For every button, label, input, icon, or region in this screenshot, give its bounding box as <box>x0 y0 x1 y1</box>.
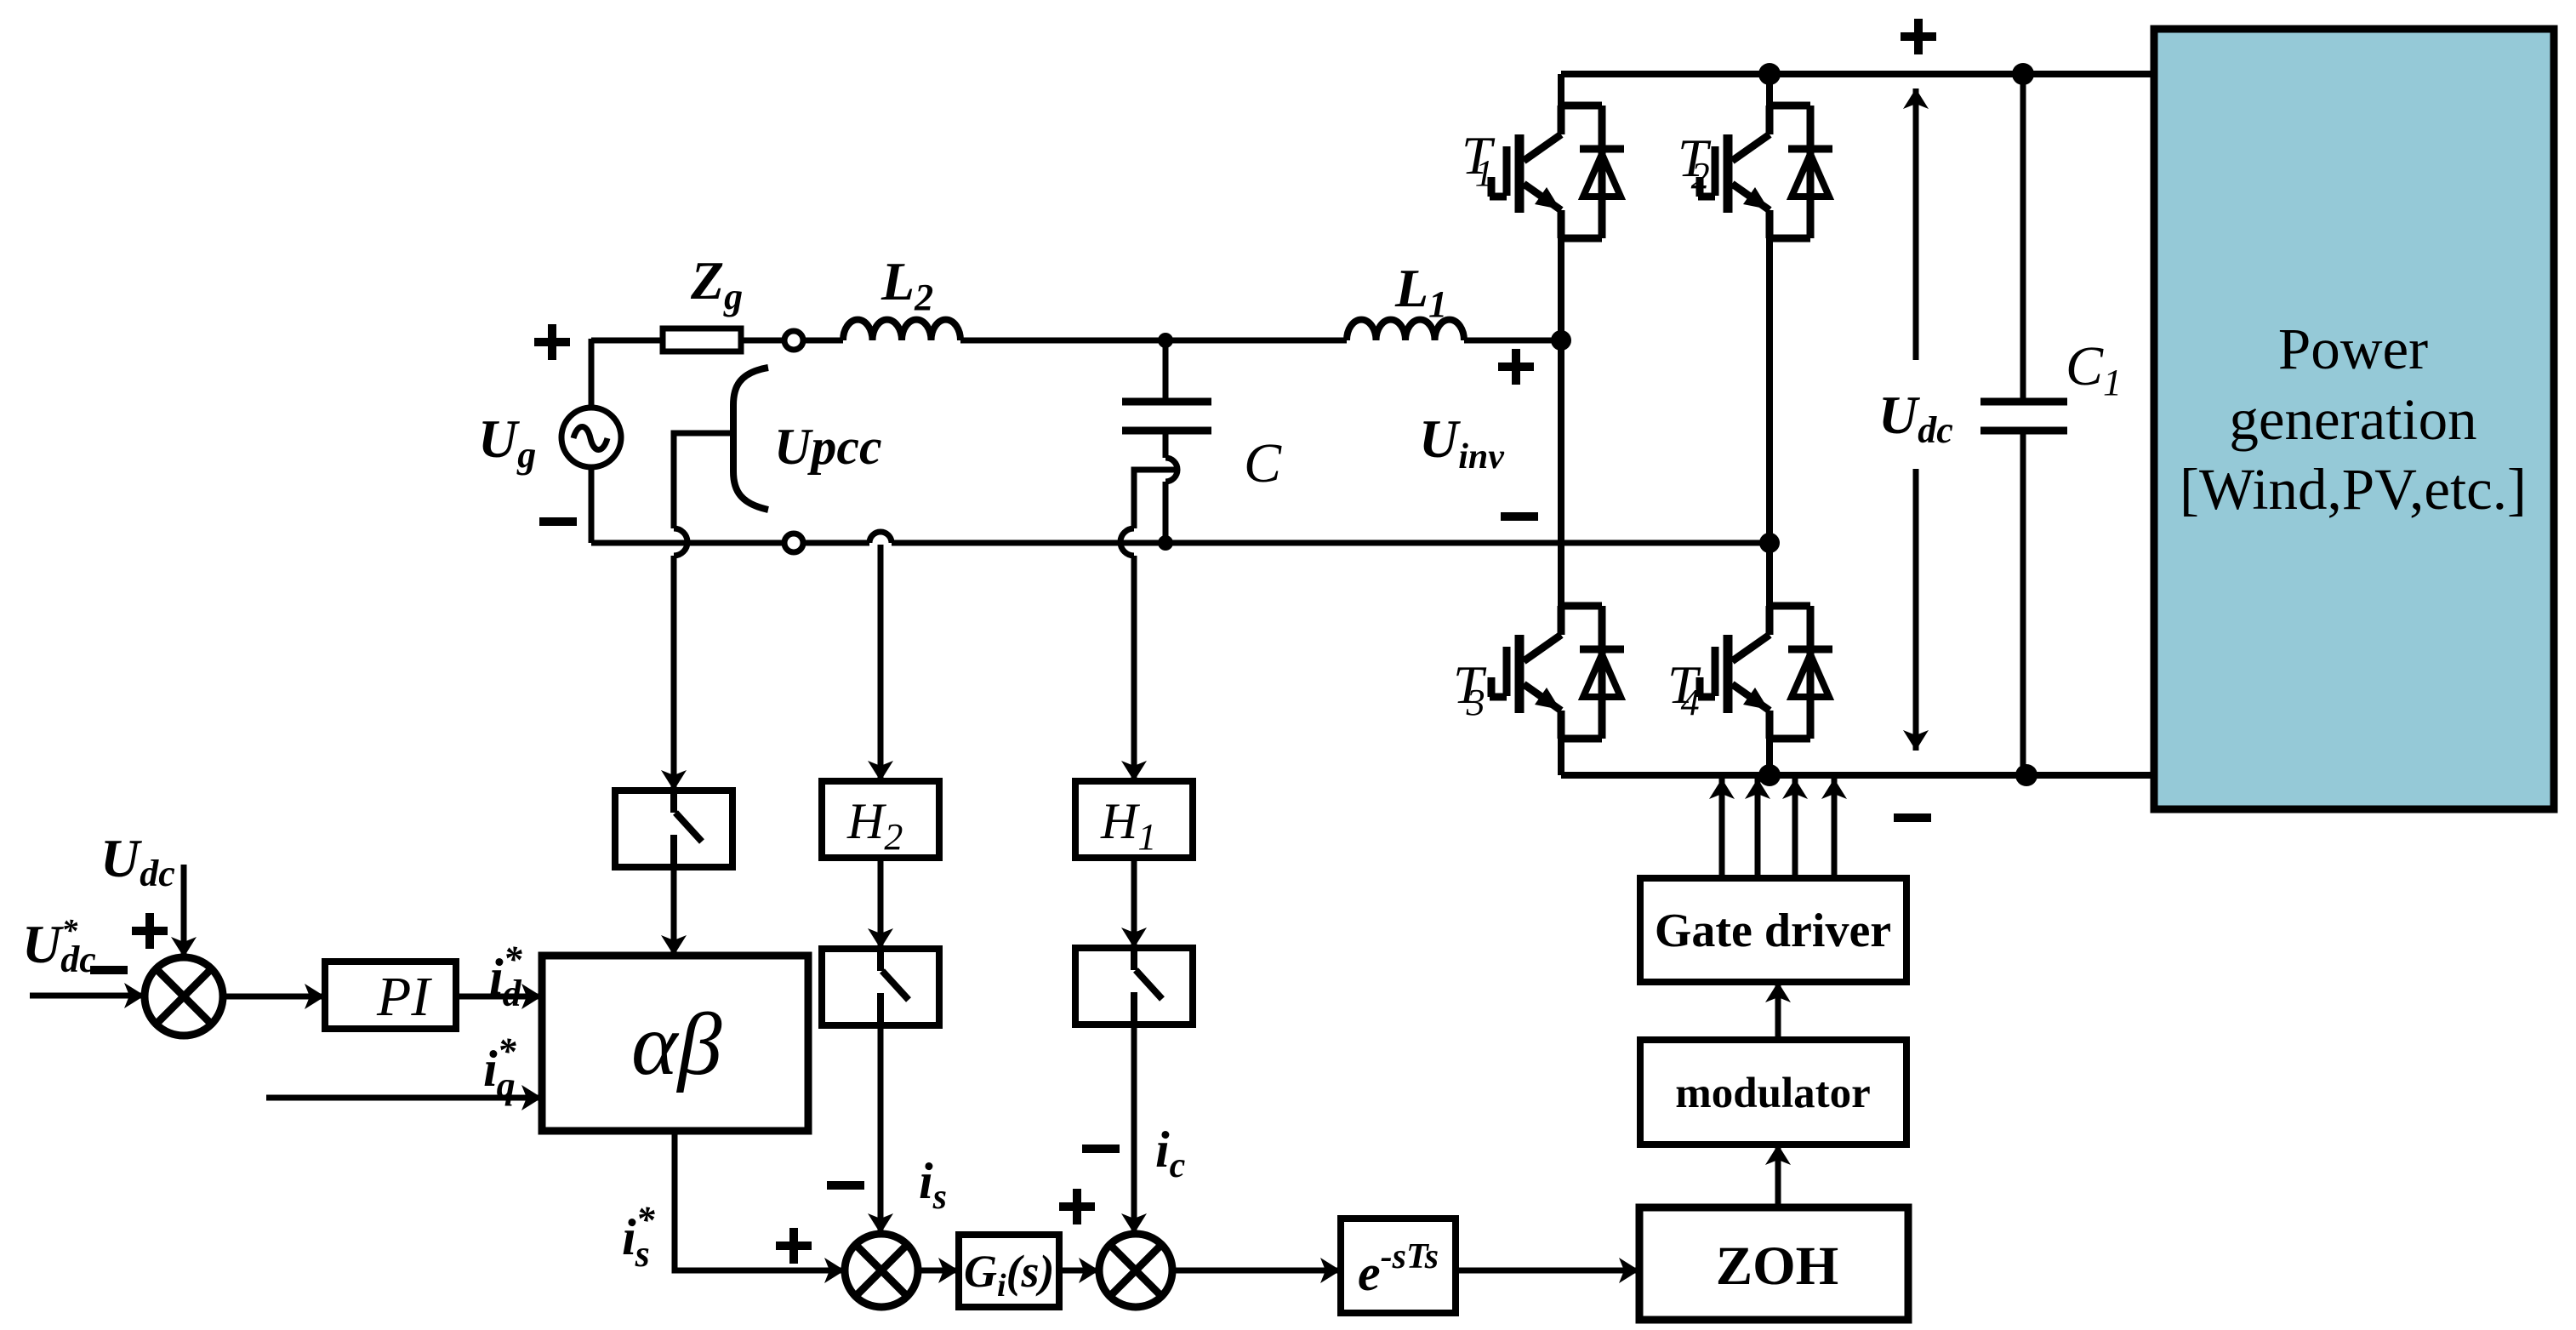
svg-text:αβ: αβ <box>631 996 722 1093</box>
wire top ac <box>591 338 663 344</box>
wire delay to ZOH <box>1456 1268 1639 1274</box>
arrow Udc measure <box>1913 88 1919 360</box>
wire <box>1464 338 1561 344</box>
inductor L1 <box>1347 320 1464 340</box>
wire Udc into sum <box>181 865 187 957</box>
svg-text:ZOH: ZOH <box>1716 1236 1838 1297</box>
node top c1 <box>2012 63 2034 85</box>
wire Gi to sum2 <box>1059 1268 1099 1274</box>
transistor T4 <box>1698 606 1832 739</box>
wire sum2 to delay <box>1172 1268 1341 1274</box>
PI block <box>325 962 456 1029</box>
wire modulator to gate driver <box>1775 982 1781 1040</box>
svg-text:T3: T3 <box>1453 654 1487 723</box>
svg-text:PI: PI <box>376 966 432 1028</box>
summing junction A <box>145 957 223 1036</box>
node top t2 <box>1758 63 1781 85</box>
block H1 <box>1075 781 1193 858</box>
wire dc bus bottom <box>1561 772 2154 779</box>
wire bottom ac <box>591 532 1770 543</box>
alpha beta block <box>542 956 808 1131</box>
node bottom t4 <box>1758 764 1781 786</box>
node mid t4 <box>1759 533 1780 553</box>
wire ic sense <box>1120 470 1177 781</box>
sampler ic <box>1075 948 1193 1025</box>
capacitor C <box>1122 340 1211 543</box>
summing junction 2 <box>1099 1234 1172 1307</box>
svg-text:T1: T1 <box>1462 125 1496 194</box>
svg-text:generation: generation <box>2229 387 2476 452</box>
block Gi(s) <box>959 1235 1059 1307</box>
minus is <box>827 1181 864 1190</box>
svg-text:Gi(s): Gi(s) <box>964 1246 1055 1304</box>
resistor Zg <box>663 328 741 351</box>
wire sampler to ab <box>671 867 677 956</box>
terminal bottom <box>784 534 803 552</box>
wire right leg <box>1766 74 1773 775</box>
wire <box>741 338 784 344</box>
modulator block <box>1640 1040 1906 1144</box>
wire sum A to PI <box>223 994 325 1000</box>
wire gate signals <box>1722 779 1834 878</box>
power generation block <box>2154 29 2554 809</box>
wire Upcc sense <box>674 433 733 791</box>
wire sum1 to Gi <box>918 1268 959 1274</box>
minus Udc bottom <box>1894 813 1931 822</box>
wire is sense <box>878 545 884 781</box>
wire H2 to sampler <box>878 858 884 949</box>
plus Uinv <box>1498 349 1534 385</box>
minus sum A <box>90 966 128 974</box>
plus sum2 <box>1059 1189 1095 1224</box>
summing junction 1 <box>845 1234 918 1307</box>
svg-text:i*q: i*q <box>483 1030 517 1106</box>
wire ZOH to modulator <box>1775 1144 1781 1207</box>
wire H1 to sampler <box>1131 858 1137 948</box>
sampler is <box>822 949 939 1025</box>
transistor T2 <box>1698 106 1832 238</box>
svg-text:Power: Power <box>2278 317 2428 381</box>
wire sampler to sum1 <box>878 1025 884 1234</box>
svg-text:T4: T4 <box>1667 654 1701 723</box>
svg-text:i*d: i*d <box>489 939 523 1014</box>
wire iq input <box>266 1095 542 1101</box>
plus Ug <box>534 324 570 360</box>
wire Udc ref input <box>30 993 145 999</box>
node inverter ac <box>1551 330 1571 351</box>
sampler Upcc <box>615 791 732 867</box>
wire PI to ab (id*) <box>456 994 542 1000</box>
wire dc bus top <box>1561 71 2154 77</box>
svg-text:[Wind,PV,etc.]: [Wind,PV,etc.] <box>2180 457 2527 522</box>
svg-text:modulator: modulator <box>1675 1070 1871 1117</box>
wire sampler to sum2 <box>1131 1025 1137 1234</box>
plus sum A <box>132 913 168 949</box>
wire <box>960 338 1347 344</box>
ZOH block <box>1639 1207 1908 1320</box>
transistor T3 <box>1490 606 1624 739</box>
plus Udc top <box>1901 19 1936 54</box>
minus ic <box>1082 1144 1120 1153</box>
node bottom c1 <box>2015 764 2037 786</box>
svg-text:Gate driver: Gate driver <box>1655 905 1891 957</box>
inductor L2 <box>843 320 960 340</box>
block H2 <box>822 781 939 858</box>
capacitor C1 <box>1980 74 2067 775</box>
gate driver block <box>1640 878 1906 982</box>
wire left leg <box>1558 74 1564 775</box>
node pcc bottom <box>1158 535 1173 551</box>
minus Uinv <box>1501 512 1538 521</box>
wire <box>803 338 843 344</box>
ac source Ug <box>561 339 621 543</box>
svg-text:Upcc: Upcc <box>774 419 882 475</box>
wire is* from ab <box>675 1131 845 1270</box>
transistor T1 <box>1490 106 1624 238</box>
terminal top <box>784 331 803 350</box>
bracket Upcc <box>733 368 768 510</box>
plus sum1 <box>776 1228 812 1264</box>
svg-text:C: C <box>1244 432 1282 494</box>
svg-text:T2: T2 <box>1678 128 1712 197</box>
block delay e-sTs <box>1341 1219 1456 1313</box>
node pcc top <box>1158 333 1173 348</box>
minus Ug <box>539 517 577 526</box>
